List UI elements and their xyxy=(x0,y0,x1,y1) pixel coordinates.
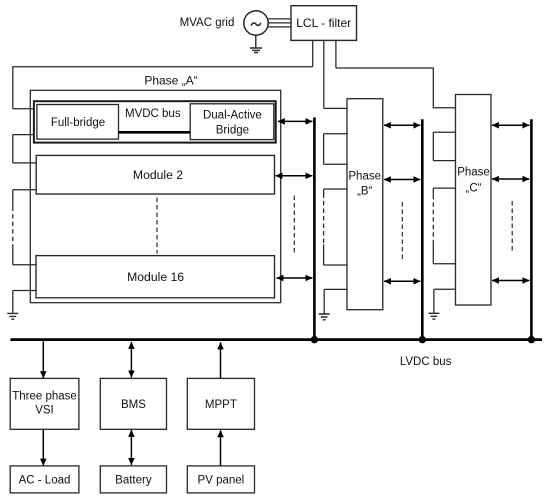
svg-text:„B“: „B“ xyxy=(357,185,373,197)
svg-text:Full-bridge: Full-bridge xyxy=(51,117,105,129)
svg-text:„C“: „C“ xyxy=(466,182,482,194)
svg-text:Battery: Battery xyxy=(115,474,152,486)
svg-text:AC - Load: AC - Load xyxy=(19,474,71,486)
svg-text:Three phase: Three phase xyxy=(12,390,77,402)
svg-text:LCL - filter: LCL - filter xyxy=(296,16,351,30)
svg-text:LVDC bus: LVDC bus xyxy=(400,356,452,368)
svg-text:VSI: VSI xyxy=(35,404,54,416)
svg-text:Dual-Active: Dual-Active xyxy=(203,110,262,122)
svg-text:Bridge: Bridge xyxy=(216,124,249,136)
svg-text:Phase: Phase xyxy=(457,167,490,179)
svg-text:MVAC grid: MVAC grid xyxy=(180,17,235,29)
svg-text:MPPT: MPPT xyxy=(205,399,237,411)
svg-text:Module 2: Module 2 xyxy=(133,168,183,182)
svg-text:BMS: BMS xyxy=(121,399,146,411)
svg-text:Phase „A“: Phase „A“ xyxy=(144,74,197,88)
svg-text:Phase: Phase xyxy=(348,170,381,182)
svg-text:MVDC bus: MVDC bus xyxy=(125,108,181,120)
svg-text:PV panel: PV panel xyxy=(198,474,245,486)
svg-text:Module 16: Module 16 xyxy=(127,270,184,284)
